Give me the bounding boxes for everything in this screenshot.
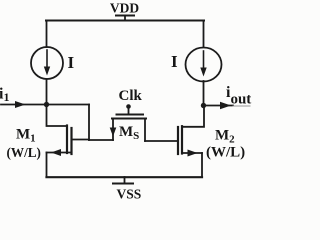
wire drain drop vertical bbox=[88, 105, 90, 141]
input wire i1 with arrow bbox=[1, 101, 46, 108]
VDD supply tap bbox=[116, 16, 134, 21]
svg-text:VSS: VSS bbox=[117, 187, 142, 201]
wire Clk to gate bbox=[128, 107, 130, 115]
wire M1 to Ms switch bbox=[89, 139, 113, 141]
wire M2 source leg with arrow bbox=[182, 150, 202, 157]
wire top rail bbox=[46, 20, 204, 22]
wire left branch lower bbox=[46, 79, 48, 105]
current source I right bbox=[186, 48, 222, 82]
svg-text:I: I bbox=[171, 52, 178, 71]
svg-text:i1: i1 bbox=[0, 86, 9, 105]
wire M1 source leg with arrow bbox=[47, 149, 72, 156]
wire Ms right to M2 gate bbox=[145, 140, 177, 142]
node B junction dot bbox=[201, 103, 206, 108]
wire VSS rail bbox=[47, 176, 203, 178]
output wire with arrow bbox=[204, 102, 251, 110]
svg-text:iout: iout bbox=[226, 84, 251, 108]
transistor Ms bbox=[110, 115, 146, 142]
svg-text:Clk: Clk bbox=[119, 88, 143, 104]
wire M1 gate connection bbox=[47, 105, 67, 127]
wire right branch lower bbox=[203, 81, 205, 106]
transistor M2 bbox=[178, 126, 182, 154]
svg-text:M1: M1 bbox=[16, 127, 36, 145]
wire node A to drain drop bbox=[47, 104, 90, 106]
wire right branch upper bbox=[203, 21, 205, 48]
wire M1 source to VSS bbox=[46, 153, 48, 178]
VSS supply tap bbox=[113, 177, 133, 184]
svg-text:(W/L): (W/L) bbox=[206, 145, 245, 161]
Clk junction dot bbox=[126, 104, 131, 109]
wire M2 drain to node B bbox=[182, 106, 204, 127]
wire left branch upper bbox=[46, 21, 48, 48]
transistor M1 bbox=[67, 126, 72, 155]
current source I left bbox=[31, 47, 63, 79]
wire M2 source to VSS bbox=[201, 153, 203, 177]
svg-text:MS: MS bbox=[119, 124, 139, 142]
svg-text:M2: M2 bbox=[215, 128, 235, 146]
wire M1 drain leg bbox=[72, 139, 90, 141]
svg-text:I: I bbox=[68, 53, 75, 72]
svg-text:VDD: VDD bbox=[110, 1, 139, 16]
node A junction dot bbox=[44, 102, 49, 107]
svg-text:(W/L): (W/L) bbox=[7, 145, 41, 160]
